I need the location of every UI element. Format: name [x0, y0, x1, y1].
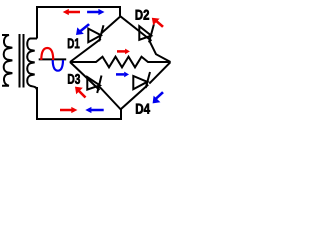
transformer primary winding	[2, 35, 12, 86]
resistor R load	[70, 57, 170, 68]
arrow blue down-left (at D4)	[153, 91, 164, 103]
diode D1	[88, 25, 103, 42]
diamond edge wire D3 bar to B	[99, 86, 121, 110]
transformer secondary winding	[27, 39, 37, 91]
arrow red up-left (at D2)	[152, 18, 164, 28]
diode D2	[139, 24, 154, 42]
arrow blue left (bottom rail)	[85, 107, 103, 113]
label D3	[68, 74, 80, 84]
diamond edge wire T to D2 bar	[120, 16, 152, 41]
label D4	[136, 104, 150, 114]
arrow blue right (below resistor)	[116, 72, 129, 78]
label D2	[136, 10, 149, 20]
diamond edge wire D2 bar to R	[150, 41, 171, 62]
diamond edge wire B to D4 bar	[121, 85, 148, 109]
sine wave icon red positive half	[41, 48, 53, 60]
label D1	[68, 39, 80, 49]
wire top rail	[37, 7, 120, 16]
arrow red right (bottom rail)	[60, 107, 77, 113]
arrow red right (above resistor)	[117, 49, 130, 55]
wire secondary top vertical	[36, 6, 38, 39]
arrow blue down-left (at D1)	[76, 23, 90, 35]
wire bottom rail	[37, 109, 121, 119]
arrow blue right (top rail)	[87, 9, 104, 15]
diode D4	[133, 72, 150, 89]
diamond edge wire D4 bar to R	[149, 62, 170, 83]
sine wave icon blue negative half	[53, 60, 63, 71]
wire secondary bottom vertical	[36, 87, 38, 120]
diamond edge wire L to D3 bar	[70, 62, 100, 90]
diode D3	[87, 76, 101, 94]
transformer core	[19, 34, 21, 88]
diamond edge wire D1 bar to T	[101, 16, 120, 33]
arrow red left (top rail)	[63, 9, 80, 15]
diamond edge wire L to D1 bar	[70, 39, 101, 62]
arrow red up-left (at D3)	[75, 87, 86, 99]
sine wave icon axis	[39, 58, 66, 60]
